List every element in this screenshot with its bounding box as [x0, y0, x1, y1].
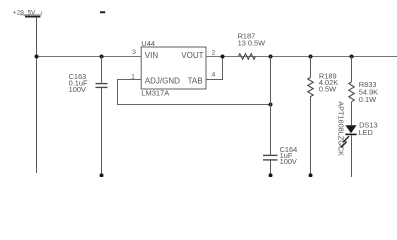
- wire: C163 top lead: [101, 57, 103, 84]
- node: junction C163 tap: [100, 55, 104, 59]
- capacitor C164: [263, 57, 297, 178]
- LED cathode bar: [345, 134, 356, 136]
- LED DS13: [341, 121, 378, 177]
- wire: top horizontal to VIN: [37, 56, 142, 58]
- node: R189 tap on VOUT run: [309, 55, 313, 59]
- node: ADJ wire joins C164 branch: [269, 103, 273, 107]
- svg-text:100V: 100V: [280, 157, 297, 166]
- wire: R189 top lead: [310, 57, 312, 78]
- svg-text:VOUT: VOUT: [181, 51, 203, 60]
- power net underline: [20, 14, 42, 16]
- node: C164 bottom junction: [269, 173, 273, 177]
- svg-text:0.1W: 0.1W: [359, 95, 376, 104]
- svg-text:APT1608LZGCK: APT1608LZGCK: [337, 101, 346, 156]
- node: R189 bottom junction: [309, 173, 313, 177]
- node: C163 bottom junction: [100, 173, 104, 177]
- stray mark (cropped text): [100, 11, 105, 13]
- LED emission arrow 2: [342, 142, 346, 146]
- power symbol bar: [25, 16, 40, 18]
- svg-text:13 0.5W: 13 0.5W: [238, 39, 266, 48]
- capacitor C163: [69, 57, 108, 178]
- svg-text:3: 3: [132, 49, 136, 56]
- svg-text:2: 2: [212, 49, 216, 56]
- wire: R833 top lead: [351, 57, 353, 83]
- resistor R189: [308, 57, 338, 178]
- LED emission arrow 1: [345, 136, 349, 140]
- wire: R833 to LED: [351, 102, 353, 126]
- C164 bottom plate: [263, 159, 278, 161]
- wire: VOUT output run: [206, 56, 397, 58]
- svg-text:0.5W: 0.5W: [319, 85, 336, 94]
- node: R833 corner on VOUT run: [350, 55, 354, 59]
- wire: LED bottom lead: [351, 135, 353, 177]
- svg-text:100V: 100V: [69, 85, 86, 94]
- LED triangle: [345, 125, 356, 133]
- svg-text:LM317A: LM317A: [141, 88, 169, 97]
- C163 bottom plate: [96, 86, 108, 88]
- svg-text:ADJ/GND: ADJ/GND: [145, 77, 180, 86]
- node: junction after R187 (C164 tap): [269, 55, 273, 59]
- svg-text:U44: U44: [141, 39, 155, 48]
- wire: TAB stub: [206, 57, 223, 80]
- wire: R189 bottom lead: [310, 97, 312, 176]
- op-amp U44 regulator body: [131, 39, 215, 97]
- node: junction +28 rail / VIN wire: [35, 55, 39, 59]
- C164 top plate: [263, 154, 278, 156]
- C163 top plate: [96, 83, 108, 85]
- node: TAB tee on VOUT: [221, 55, 225, 59]
- wire: C164 top lead: [270, 57, 272, 156]
- resistor R187: [238, 31, 266, 59]
- svg-text:VIN: VIN: [145, 51, 159, 60]
- svg-text:4: 4: [212, 72, 216, 79]
- wire: ADJ/GND pin 1 path: [118, 80, 271, 105]
- svg-text:+28_5V: +28_5V: [13, 9, 36, 16]
- wire: C164 bottom lead: [270, 160, 272, 175]
- svg-text:LED: LED: [359, 128, 373, 137]
- svg-text:TAB: TAB: [188, 77, 203, 86]
- wire: C163 bottom lead: [101, 88, 103, 176]
- wire: +28_5V vertical rail: [36, 18, 38, 174]
- resistor R833: [349, 57, 378, 104]
